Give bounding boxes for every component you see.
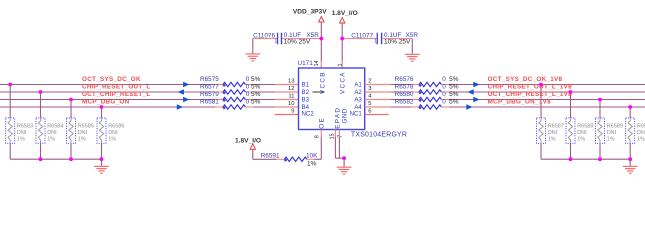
svg-text:DNI: DNI (108, 130, 118, 136)
svg-text:12: 12 (288, 86, 295, 92)
wire drop to R6588 (570, 92, 572, 118)
svg-text:DNI: DNI (577, 130, 587, 136)
svg-text:R6578: R6578 (395, 83, 414, 90)
wire drop to R6590 (629, 107, 631, 118)
svg-text:B2: B2 (302, 89, 310, 96)
resistor R6580 (395, 91, 459, 102)
pin 7 stub GND (338, 130, 340, 138)
svg-text:U171: U171 (298, 60, 314, 67)
svg-text:1.8V_I/O: 1.8V_I/O (235, 137, 261, 144)
svg-text:R6582: R6582 (395, 98, 414, 105)
arrow row4 left (right-pointing) (177, 104, 183, 109)
svg-text:R6588: R6588 (577, 124, 593, 130)
resistor R6581 (200, 98, 261, 109)
svg-text:0: 0 (442, 76, 446, 83)
power symbol 1.8V_I/O (top) (332, 10, 358, 23)
node junction dots left wires (8, 83, 103, 109)
node VDD_3P3V / C11076 junction (319, 37, 323, 41)
svg-text:0: 0 (442, 98, 446, 105)
resistor R6577 (200, 83, 261, 94)
svg-text:0: 0 (442, 91, 446, 98)
IC U171 TXS0104ERGYR (298, 60, 408, 138)
svg-text:R6585: R6585 (78, 124, 94, 130)
pin 4 stub A3 (365, 99, 391, 101)
wire drop to R6586 (101, 107, 103, 118)
svg-text:5%: 5% (251, 83, 261, 90)
wire drop to R6584 (40, 92, 42, 118)
resistor R6589 (DNI) (596, 118, 623, 143)
svg-text:5%: 5% (251, 76, 261, 83)
wire left DNI bank bottom bus (10, 143, 101, 159)
svg-text:DNI: DNI (47, 130, 57, 136)
node junction dots right bus (569, 157, 633, 161)
wire drop to R6585 (70, 100, 72, 118)
svg-text:A2: A2 (354, 89, 362, 96)
svg-text:B1: B1 (302, 82, 310, 89)
svg-text:10K: 10K (306, 152, 318, 159)
resistor R6579 (200, 91, 261, 102)
pin 9 stub NC2 (275, 114, 299, 116)
svg-text:R6583: R6583 (17, 124, 33, 130)
svg-text:MCP_DBG_ON_1V8: MCP_DBG_ON_1V8 (488, 98, 552, 105)
svg-text:1: 1 (374, 39, 377, 45)
pin 5 stub A4 (365, 106, 391, 108)
wire R6591 to pin 8 (OE) (307, 137, 321, 159)
svg-text:TXS0104ERGYR: TXS0104ERGYR (351, 131, 407, 138)
wire drop to R6583 (9, 85, 11, 118)
svg-text:CHIP_RESET_OUT_L_1V8: CHIP_RESET_OUT_L_1V8 (488, 83, 573, 90)
svg-text:OCT_SYS_DC_OK: OCT_SYS_DC_OK (82, 76, 141, 83)
wire EPAD to ground (335, 137, 344, 158)
svg-text:1%: 1% (17, 137, 25, 143)
wire OCT_SYS_DC_OK (row 1 left) (0, 84, 275, 86)
svg-text:5%: 5% (449, 76, 459, 83)
svg-text:6: 6 (368, 109, 372, 115)
arrow row4 right (right-pointing) (466, 104, 472, 109)
wire VDD_3P3V to pin 14 (320, 22, 322, 68)
wire 1.8V_I/O to pin 1 (341, 23, 343, 68)
svg-text:R6591: R6591 (261, 152, 280, 159)
wire 1.8V_I/O to R6591 (253, 149, 285, 159)
svg-text:13: 13 (288, 79, 295, 85)
svg-text:DNI: DNI (607, 130, 617, 136)
svg-text:DNI: DNI (637, 130, 645, 136)
wire MCP_DBG_ON_1V8 (row 4 right) (391, 106, 645, 108)
svg-text:C11076: C11076 (253, 32, 275, 39)
pin 3 stub A2 (365, 91, 391, 93)
svg-text:R6586: R6586 (108, 124, 124, 130)
svg-text:11: 11 (288, 94, 294, 100)
wire OCT_CHIP_RESET_L_1V8 (row 3 right) (391, 99, 645, 101)
arrow row3 right (right-pointing) (473, 97, 479, 102)
resistor R6578 (395, 83, 459, 94)
node junction dots right wires (539, 83, 632, 109)
ground (left DNI bank) (94, 159, 109, 174)
svg-text:R6584: R6584 (47, 124, 63, 130)
svg-text:GND: GND (342, 108, 349, 123)
svg-text:OCT_SYS_DC_OK_1V8: OCT_SYS_DC_OK_1V8 (488, 76, 563, 83)
resistor R6584 (DNI) (36, 118, 63, 143)
svg-text:1%: 1% (577, 137, 585, 143)
svg-text:3: 3 (368, 86, 372, 92)
svg-text:R6590: R6590 (637, 124, 645, 130)
pin 8 stub OE (320, 130, 322, 138)
wire CHIP_RESET_OUT_L_1V8 (row 2 right) (391, 91, 645, 93)
wire OCT_SYS_DC_OK_1V8 (row 1 right) (391, 84, 645, 86)
resistor R6585 (DNI) (67, 118, 94, 143)
svg-text:R6581: R6581 (200, 98, 219, 105)
svg-text:8: 8 (315, 135, 321, 138)
internal dash mark under VCCB (313, 91, 325, 93)
svg-text:VDD_3P3V: VDD_3P3V (293, 9, 327, 16)
pin 15 stub EPAD (334, 130, 336, 138)
svg-text:NC1: NC1 (350, 110, 363, 117)
svg-text:R6589: R6589 (607, 124, 623, 130)
svg-text:R6577: R6577 (200, 83, 219, 90)
svg-text:1: 1 (338, 64, 344, 67)
resistor R6582 (395, 98, 459, 109)
resistor R6586 (DNI) (97, 118, 124, 143)
svg-text:5: 5 (368, 101, 372, 107)
wire drop to R6589 (599, 100, 601, 118)
svg-text:OCT_CHIP_RESET_L_1V8: OCT_CHIP_RESET_L_1V8 (488, 91, 573, 98)
svg-text:0: 0 (442, 83, 446, 90)
svg-text:R6579: R6579 (200, 91, 219, 98)
power symbol VDD_3P3V (293, 9, 327, 22)
svg-text:9: 9 (291, 109, 294, 115)
node junction dots left bus (39, 157, 104, 161)
svg-text:NC2: NC2 (302, 110, 315, 117)
svg-text:5%: 5% (449, 91, 459, 98)
resistor R6591 (261, 152, 318, 167)
resistor R6576 (395, 76, 459, 87)
svg-text:R6580: R6580 (395, 91, 414, 98)
pin 13 stub B1 (275, 84, 299, 86)
svg-text:10% 25V: 10% 25V (284, 39, 311, 46)
svg-text:10% 25V: 10% 25V (384, 39, 411, 46)
svg-text:R6576: R6576 (395, 76, 414, 83)
svg-text:1%: 1% (637, 137, 645, 143)
svg-text:DNI: DNI (548, 130, 558, 136)
svg-text:7: 7 (337, 135, 343, 138)
svg-text:1%: 1% (47, 137, 55, 143)
svg-text:CHIP_RESET_OUT_L: CHIP_RESET_OUT_L (82, 83, 150, 90)
pin 10 stub B4 (275, 106, 299, 108)
wire MCP_DBG_ON (row 4 left) (0, 106, 275, 108)
power symbol 1.8V_I/O (bottom, OE pull-up) (235, 137, 261, 149)
svg-text:0: 0 (246, 83, 250, 90)
svg-text:R6587: R6587 (548, 124, 564, 130)
resistor R6587 (DNI) (537, 118, 564, 143)
svg-text:A1: A1 (354, 82, 362, 89)
svg-text:VCCB: VCCB (320, 71, 327, 94)
svg-text:5%: 5% (449, 98, 459, 105)
svg-text:C11077: C11077 (351, 32, 373, 39)
pin 6 stub NC1 (365, 114, 389, 116)
svg-text:1%: 1% (307, 160, 317, 167)
svg-text:15: 15 (330, 133, 336, 139)
wire GND pin to ground (338, 137, 340, 158)
pin 2 stub A1 (365, 84, 391, 86)
ground (U171 GND/EPAD) (337, 158, 352, 174)
resistor R6575 (200, 76, 261, 87)
svg-text:VCCA: VCCA (339, 71, 346, 94)
svg-text:1%: 1% (548, 137, 556, 143)
svg-text:DNI: DNI (17, 130, 27, 136)
arrow row2 left (left-pointing) (178, 89, 184, 94)
wire right DNI bank bottom bus (541, 143, 630, 159)
svg-text:DNI: DNI (78, 130, 88, 136)
wire OCT_CHIP_RESET_L (row 3 left) (0, 99, 275, 101)
svg-text:0: 0 (246, 98, 250, 105)
capacitor C11076 (253, 32, 321, 46)
svg-text:A3: A3 (354, 97, 362, 104)
ground (right DNI bank) (623, 159, 638, 174)
node GND/EPAD junction (342, 156, 346, 160)
resistor R6588 (DNI) (566, 118, 593, 143)
svg-text:1: 1 (274, 39, 277, 45)
svg-text:MCP_DBG_ON: MCP_DBG_ON (82, 98, 130, 105)
svg-text:1%: 1% (607, 137, 615, 143)
ground (C11077) (405, 39, 420, 62)
node 1.8V_I/O / C11077 junction (340, 37, 344, 41)
svg-text:5%: 5% (251, 98, 261, 105)
wire drop to R6587 (540, 85, 542, 118)
resistor R6583 (DNI) (6, 118, 33, 143)
capacitor C11077 (342, 32, 418, 46)
svg-text:5%: 5% (449, 83, 459, 90)
svg-text:B3: B3 (302, 97, 310, 104)
svg-text:OE: OE (319, 117, 326, 129)
svg-text:0: 0 (246, 76, 250, 83)
svg-text:1%: 1% (78, 137, 86, 143)
ground (C11076) (245, 39, 260, 62)
svg-text:2: 2 (368, 79, 371, 85)
arrow row1 left (right-pointing) (183, 82, 189, 87)
svg-text:1.8V_I/O: 1.8V_I/O (332, 10, 358, 17)
arrow row3 left (right-pointing) (183, 97, 189, 102)
svg-text:OCT_CHIP_RESET_L: OCT_CHIP_RESET_L (82, 91, 150, 98)
resistor R6590 (DNI) (626, 118, 645, 143)
arrow row1 right (right-pointing) (473, 82, 479, 87)
svg-text:5%: 5% (251, 91, 261, 98)
svg-text:1%: 1% (108, 137, 116, 143)
svg-text:10: 10 (288, 101, 295, 107)
pin 11 stub B3 (275, 99, 299, 101)
svg-text:EPAD: EPAD (335, 107, 342, 129)
arrow row2 right (left-pointing) (468, 89, 474, 94)
svg-text:R6575: R6575 (200, 76, 219, 83)
pin 12 stub B2 (275, 91, 299, 93)
svg-text:4: 4 (368, 94, 372, 100)
svg-text:14: 14 (314, 61, 320, 67)
wire CHIP_RESET_OUT_L (row 2 left) (0, 91, 275, 93)
svg-text:0: 0 (246, 91, 250, 98)
